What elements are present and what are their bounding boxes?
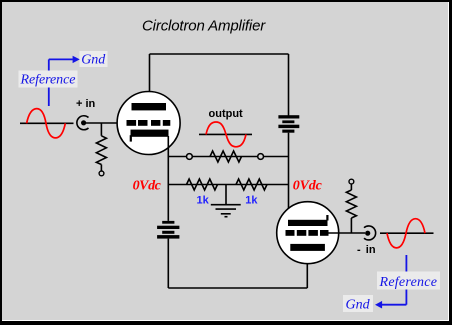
left tube grid: [127, 120, 171, 126]
svg-text:-: -: [357, 244, 361, 256]
blue annotation left: arrow to Gnd: [49, 56, 80, 63]
label Reference right: [377, 272, 440, 291]
ground: [211, 185, 241, 217]
wire left plate lead: [149, 54, 151, 103]
svg-text:0Vdc: 0Vdc: [133, 179, 162, 194]
resistor grid right (pullup): [346, 179, 356, 233]
svg-text:Gnd: Gnd: [81, 53, 106, 68]
svg-text:1k: 1k: [245, 195, 258, 207]
right input source sine: [380, 219, 434, 248]
resistor 1k left: [187, 179, 218, 190]
svg-text:0Vdc: 0Vdc: [293, 179, 323, 194]
wire left column lower (battery B1 to bottom rail): [167, 239, 169, 288]
label Gnd right: [343, 295, 373, 313]
right tube grid: [286, 230, 329, 236]
left tube envelope: [117, 92, 180, 155]
right tube plate: [288, 215, 329, 226]
right tube envelope: [277, 202, 339, 264]
output sine: [199, 122, 252, 147]
blue annotation right: vertical line: [405, 255, 407, 305]
svg-text:Reference: Reference: [20, 73, 76, 88]
battery B2 right: [278, 115, 299, 133]
wire right tube grid to - in terminal: [329, 232, 366, 234]
left tube plate: [132, 103, 167, 110]
wire left tube cathode down (left column): [167, 136, 169, 221]
wire right column (battery B2 to right tube plate): [288, 133, 290, 220]
wire input to grid (left tube): [85, 122, 127, 124]
wire bottom rail: [168, 287, 307, 289]
output terminal right: [258, 154, 264, 160]
resistor pulldown left: [96, 123, 106, 176]
svg-text:output: output: [209, 108, 244, 120]
wire right tube cathode down: [306, 250, 308, 288]
blue annotation right: arrow to Gnd: [375, 301, 406, 309]
svg-text:+ in: + in: [76, 98, 96, 110]
label Reference left: [19, 71, 78, 88]
svg-text:Circlotron Amplifier: Circlotron Amplifier: [142, 18, 266, 35]
svg-text:1k: 1k: [197, 195, 210, 207]
blue annotation left: vertical line: [48, 59, 50, 106]
resistor 1k right: [236, 179, 267, 190]
input terminal + in (C with dot): [77, 116, 89, 130]
output resistor: [210, 151, 242, 162]
wire output row: [168, 156, 288, 158]
left tube cathode: [130, 130, 169, 142]
output terminal left: [187, 154, 193, 160]
wire 1k row: [168, 184, 288, 186]
wire top rail: [150, 53, 289, 55]
left input source sine: [20, 109, 74, 138]
wire right rail upper (top rail to battery B2): [288, 54, 290, 116]
label Gnd left: [80, 51, 108, 68]
input terminal - in (C with dot): [364, 226, 376, 240]
svg-text:Gnd: Gnd: [346, 298, 371, 313]
battery B1 left: [157, 221, 179, 239]
right tube cathode: [290, 244, 325, 251]
svg-text:Reference: Reference: [379, 275, 438, 290]
svg-text:in: in: [366, 244, 376, 256]
